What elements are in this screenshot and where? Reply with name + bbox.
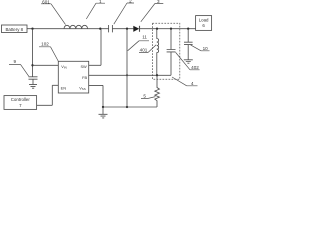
node VIN tee dot xyxy=(31,64,33,66)
svg-text:FB: FB xyxy=(82,75,87,80)
ground under C9 xyxy=(29,85,37,89)
wire node B vertical xyxy=(126,29,128,107)
svg-text:5: 5 xyxy=(143,94,146,99)
node bottom rail dot xyxy=(126,106,128,108)
label 601 xyxy=(41,0,66,25)
label 4 xyxy=(172,77,198,86)
capacitor C10 xyxy=(184,29,193,60)
label 3 xyxy=(141,0,164,22)
node A dot xyxy=(99,28,101,30)
node cap402 top dot xyxy=(170,28,172,30)
label 102 xyxy=(39,42,58,61)
label 2 xyxy=(114,0,134,24)
node battery junction dot xyxy=(31,28,33,30)
svg-text:SW: SW xyxy=(80,64,87,69)
wire FB feedback rail xyxy=(89,74,171,76)
svg-text:4: 4 xyxy=(191,81,194,86)
node winding bottom dot xyxy=(156,74,158,76)
wire VIN feed xyxy=(33,64,59,66)
wire EN from controller xyxy=(37,85,59,105)
svg-text:VIN: VIN xyxy=(61,64,67,69)
diode D3 xyxy=(133,26,139,32)
capacitor C9 xyxy=(29,77,38,85)
resistor R5 xyxy=(155,75,160,107)
svg-text:401: 401 xyxy=(140,48,148,53)
label 5 xyxy=(141,94,155,99)
svg-text:6: 6 xyxy=(202,23,205,28)
wire top rail right segment xyxy=(140,28,196,30)
svg-text:102: 102 xyxy=(41,42,49,47)
label 10 xyxy=(191,45,210,51)
node B dot xyxy=(126,28,128,30)
transformer module 4 dashed box xyxy=(152,23,179,79)
wire top rail middle segment xyxy=(112,28,133,30)
inductor L601 xyxy=(64,25,88,28)
ground under C10 xyxy=(184,60,193,63)
svg-text:Load: Load xyxy=(199,18,209,23)
svg-text:10: 10 xyxy=(203,46,209,51)
label 11 xyxy=(128,35,149,51)
node FB cross dot xyxy=(126,74,128,76)
node cap10 tee dot xyxy=(187,28,189,30)
node winding top dot xyxy=(156,28,158,30)
label 402 xyxy=(176,52,200,70)
load box 6 xyxy=(196,16,212,31)
wire bottom ground rail xyxy=(103,106,157,108)
svg-text:EN: EN xyxy=(61,85,67,90)
svg-text:11: 11 xyxy=(142,35,147,40)
winding 401 xyxy=(157,29,159,76)
capacitor C2 xyxy=(109,25,113,32)
svg-text:402: 402 xyxy=(191,65,199,70)
wire vertical battery rail down to capacitor xyxy=(32,29,34,77)
capacitor 402 xyxy=(167,29,176,76)
battery BT8 box xyxy=(2,25,28,33)
svg-text:VSS: VSS xyxy=(79,85,86,90)
svg-text:9: 9 xyxy=(14,59,17,64)
wire VSS to ground rail xyxy=(89,85,103,107)
svg-text:Controller: Controller xyxy=(11,97,31,102)
svg-text:7: 7 xyxy=(19,103,22,108)
op-amp regulator U102 box xyxy=(58,61,88,93)
label 401 xyxy=(139,45,156,53)
controller box 7 xyxy=(4,96,37,110)
label 9 xyxy=(9,59,29,76)
wire top rail left segment xyxy=(27,28,109,30)
node ground junction dot xyxy=(102,106,104,108)
label 1 xyxy=(86,0,105,19)
ground bottom symbol xyxy=(99,107,108,118)
wire SW riser xyxy=(89,29,101,66)
svg-text:Battery 8: Battery 8 xyxy=(6,27,24,32)
